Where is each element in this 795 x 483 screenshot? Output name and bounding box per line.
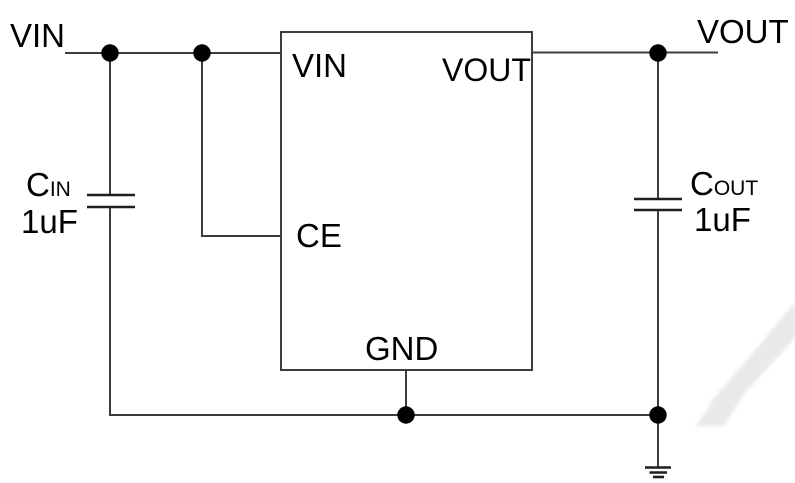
- svg-text:CIN: CIN: [26, 166, 71, 203]
- wire VOUT output: [532, 52, 718, 54]
- wire COUT branch bottom: [657, 210, 659, 415]
- svg-text:VOUT: VOUT: [697, 13, 789, 50]
- svg-text:VIN: VIN: [10, 17, 65, 54]
- junction node at VIN/CE: [193, 44, 210, 61]
- svg-text:COUT: COUT: [690, 165, 758, 202]
- svg-text:1uF: 1uF: [694, 201, 751, 238]
- wire ground stub: [657, 415, 659, 467]
- svg-text:CE: CE: [296, 217, 342, 254]
- junction node at VIN/CIN: [101, 44, 118, 61]
- IC U1 body: [281, 32, 532, 370]
- ground symbol: [645, 468, 671, 478]
- wire COUT branch top: [657, 53, 659, 200]
- wire ground bus: [109, 414, 658, 416]
- capacitor C_IN plates: [87, 195, 135, 207]
- junction node at GND bus: [397, 406, 414, 423]
- svg-text:1uF: 1uF: [21, 203, 78, 240]
- wire VIN input: [65, 52, 281, 54]
- wire CE horizontal: [201, 235, 281, 237]
- svg-text:VOUT: VOUT: [442, 52, 531, 88]
- junction node at VOUT/COUT: [649, 44, 666, 61]
- watermark swoosh: [695, 302, 795, 426]
- junction node at COUT/ground: [649, 406, 666, 423]
- capacitor C_OUT plates: [634, 199, 682, 210]
- wire CE vertical: [201, 53, 203, 236]
- wire GND pin: [405, 370, 407, 415]
- wire CIN branch bottom: [109, 206, 111, 416]
- wire CIN branch top: [109, 53, 111, 196]
- svg-text:VIN: VIN: [292, 47, 347, 84]
- svg-text:GND: GND: [365, 330, 438, 367]
